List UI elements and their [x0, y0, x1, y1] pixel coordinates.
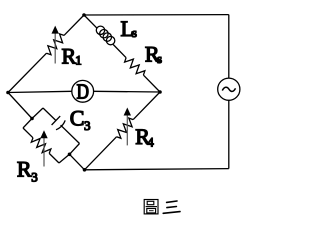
resistor Rs zigzag: [125, 58, 145, 75]
junction J1: [30, 117, 34, 121]
svg-text:C: C: [70, 105, 85, 130]
wire: left vertex to detector: [8, 91, 72, 92]
wire: capacitor C3 to corner E: [61, 125, 80, 143]
wire: N to capacitor C3: [43, 108, 56, 121]
wire: J1 up to corner N (capacitor branch): [32, 108, 43, 119]
wire: Ls to Rs: [113, 45, 126, 58]
wire: corner S up to junction J2: [59, 154, 70, 163]
node left vertex: [6, 91, 10, 95]
svg-text:R: R: [17, 157, 32, 182]
wire: top wire from top node to source loop: [84, 14, 229, 16]
arrow of variable resistor R1: [54, 33, 56, 64]
wire: W to R3: [23, 128, 33, 138]
wire: J1 down to corner W (R3 branch): [23, 119, 32, 129]
inductor Ls coil: [96, 26, 104, 34]
wire: bottom vertex to R4: [85, 137, 117, 170]
svg-text:s: s: [157, 51, 162, 66]
caption figure-three (圖): [144, 200, 158, 214]
wire: top vertex to Ls: [84, 15, 97, 28]
wire: R4 to right vertex: [133, 92, 160, 120]
svg-text:D: D: [76, 80, 89, 104]
svg-text:3: 3: [31, 170, 38, 185]
capacitor C3 plates: [52, 116, 61, 125]
detector D (galvanometer): [72, 80, 94, 102]
caption figure-three (三): [163, 201, 180, 213]
wire: bottom wire from bottom node to source loop: [85, 169, 229, 170]
wire: junction J2 to bottom vertex: [70, 154, 85, 170]
wire: R3 to corner S: [49, 153, 59, 163]
wire: Rs to right vertex: [143, 75, 160, 92]
wire: right side lower (source bottom to corner): [228, 100, 230, 168]
wire: R1 to top vertex: [64, 15, 84, 35]
AC source V1: [218, 78, 240, 100]
node right vertex: [158, 90, 162, 94]
resistor R1 (variable) zigzag: [47, 34, 65, 55]
wire: right side upper (corner down to source top): [228, 15, 230, 79]
svg-text:1: 1: [75, 52, 82, 67]
arrow of variable resistor R4: [126, 115, 128, 145]
junction J2: [68, 153, 72, 157]
resistor R3 (variable) zigzag: [31, 138, 51, 154]
resistor R4 (variable) zigzag: [117, 118, 134, 138]
svg-text:3: 3: [84, 118, 91, 133]
node top vertex: [82, 13, 86, 17]
svg-text:s: s: [132, 25, 137, 40]
wire: left vertex to junction J1: [8, 93, 32, 119]
node bottom vertex: [83, 168, 87, 172]
svg-text:4: 4: [147, 134, 154, 149]
arrow of variable resistor R3: [43, 137, 45, 167]
wire: left vertex to R1: [8, 53, 47, 92]
wire: corner E down to junction J2: [70, 144, 80, 155]
wire: detector to right vertex: [94, 90, 160, 93]
